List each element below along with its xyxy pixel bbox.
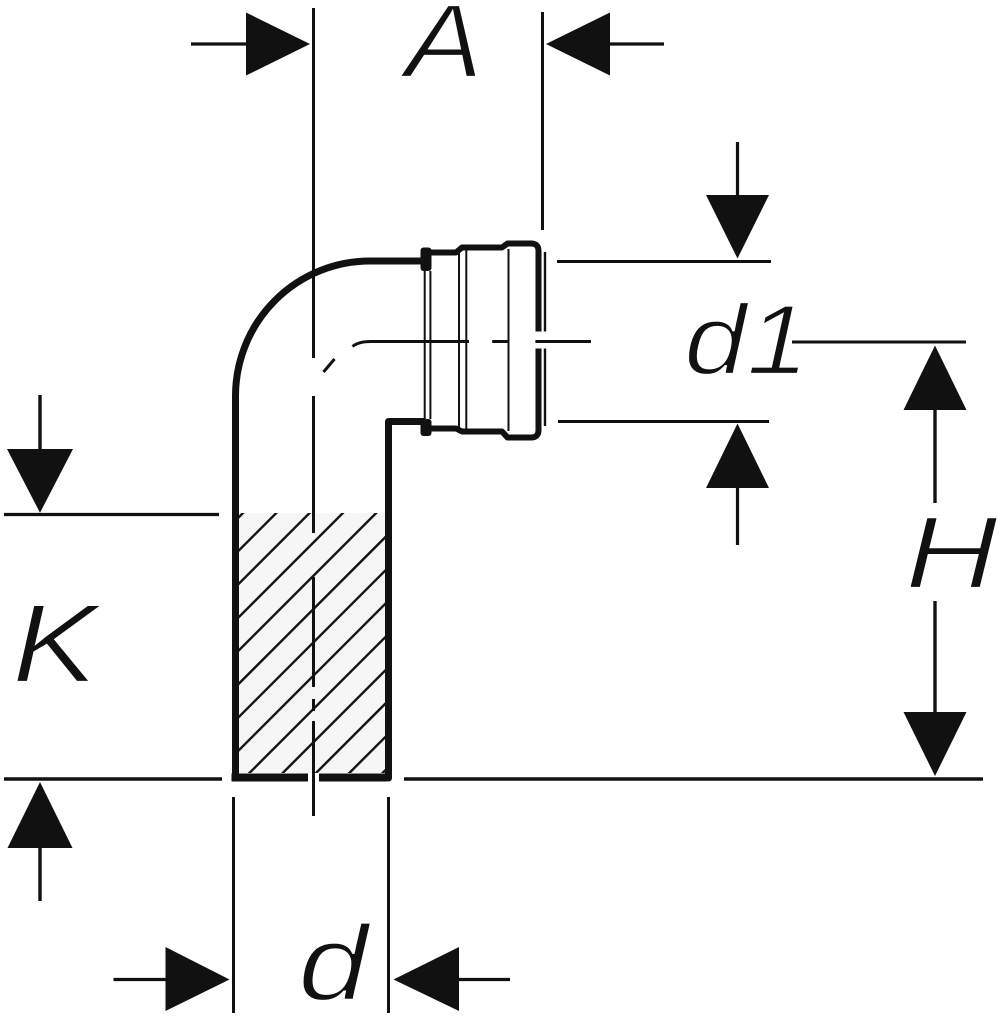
d1 arrow down — [736, 142, 739, 198]
pipe bottom cap — [232, 774, 388, 782]
socket mouth outer line — [544, 252, 546, 426]
svg-text:K: K — [12, 581, 103, 706]
A dim arrow right — [546, 13, 610, 76]
K arrow down — [38, 395, 41, 453]
svg-text:H: H — [905, 495, 999, 610]
d1 leader line — [792, 341, 966, 344]
d extension right — [387, 797, 390, 1013]
A dim arrow left — [191, 42, 248, 45]
svg-text:d1: d1 — [684, 284, 809, 395]
socket wall line 1 — [424, 271, 426, 419]
d1 arrow up — [706, 424, 769, 489]
K top line — [4, 513, 219, 516]
socket bottom edge — [431, 349, 539, 438]
H arrow down — [933, 601, 936, 713]
d1 extension bottom — [558, 420, 769, 423]
vertical centerline dashes — [312, 396, 315, 816]
horizontal centerline dashes — [492, 340, 591, 343]
pipe elbow inner wall — [389, 422, 425, 779]
socket top edge — [431, 244, 539, 332]
socket rim inner line — [508, 249, 510, 431]
d arrow left — [394, 947, 460, 1011]
bend centerline dash 2 — [353, 342, 470, 347]
svg-text:A: A — [398, 0, 483, 100]
socket wall line 2 — [429, 271, 431, 419]
socket bottom tab — [421, 419, 432, 436]
vertical centerline / A extension left — [312, 8, 315, 358]
H arrow up — [904, 346, 967, 411]
A extension right — [541, 12, 544, 230]
socket wall line 3 — [458, 253, 460, 428]
d1 extension top — [557, 260, 771, 263]
svg-text:d: d — [298, 903, 372, 1023]
K arrow up — [8, 782, 73, 848]
bend centerline dash 1 — [324, 359, 335, 372]
d arrow right — [114, 978, 168, 981]
socket wall line 4 — [465, 250, 467, 430]
d extension left — [232, 797, 235, 1013]
socket top tab — [421, 248, 432, 272]
baseline — [4, 777, 983, 780]
hatched section fill — [239, 513, 385, 773]
pipe elbow outer wall — [236, 261, 422, 778]
